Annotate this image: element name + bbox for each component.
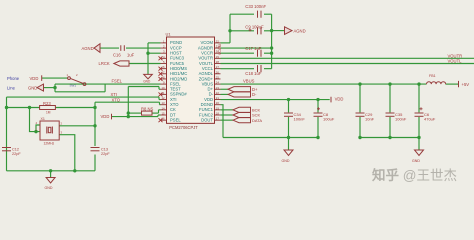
svg-text:SW1: SW1 (70, 83, 77, 87)
svg-text:VDD: VDD (335, 96, 344, 101)
svg-text:25: 25 (216, 75, 220, 79)
svg-text:13: 13 (162, 101, 166, 105)
svg-text:Phone: Phone (7, 76, 20, 81)
svg-text:C13: C13 (101, 147, 108, 151)
svg-text:VCOM: VCOM (218, 44, 222, 55)
svg-text:22pF: 22pF (12, 152, 21, 156)
svg-text:32: 32 (216, 39, 220, 43)
svg-text:知乎 @王世杰: 知乎 @王世杰 (372, 167, 457, 183)
svg-text:23: 23 (216, 86, 220, 90)
svg-text:+5V: +5V (462, 82, 470, 87)
svg-text:C18 1uF: C18 1uF (245, 71, 262, 76)
svg-text:22pF: 22pF (101, 152, 110, 156)
svg-text:VOUTL: VOUTL (448, 59, 463, 64)
svg-text:PSEL: PSEL (170, 117, 181, 122)
svg-text:DATA: DATA (252, 118, 262, 123)
svg-text:GND: GND (412, 159, 420, 163)
svg-text:18: 18 (216, 112, 220, 116)
svg-text:12MHz: 12MHz (44, 141, 55, 145)
svg-text:22: 22 (216, 91, 220, 95)
svg-text:R8 NS: R8 NS (141, 106, 154, 111)
svg-text:FSEL: FSEL (112, 79, 123, 84)
svg-text:LRCK: LRCK (99, 61, 110, 66)
svg-text:470uF: 470uF (424, 117, 436, 122)
svg-text:VDD: VDD (30, 76, 39, 81)
svg-text:100uF: 100uF (323, 117, 335, 122)
svg-text:15: 15 (162, 112, 166, 116)
svg-text:12: 12 (162, 96, 166, 100)
svg-text:DOUT: DOUT (201, 117, 213, 122)
svg-text:26: 26 (216, 70, 220, 74)
svg-text:GND: GND (143, 80, 151, 84)
svg-text:U1: U1 (166, 32, 172, 37)
svg-text:10nF: 10nF (365, 117, 375, 122)
svg-text:AGND: AGND (82, 46, 94, 51)
svg-text:1M: 1M (46, 111, 51, 115)
svg-text:Line: Line (7, 85, 16, 90)
svg-text:D-: D- (252, 92, 257, 97)
svg-text:20: 20 (216, 101, 220, 105)
svg-text:XTO: XTO (112, 97, 121, 102)
svg-text:VDD: VDD (101, 114, 110, 119)
svg-text:VBUS: VBUS (243, 79, 255, 84)
svg-text:27: 27 (216, 65, 220, 69)
svg-text:1uF: 1uF (127, 53, 135, 58)
svg-text:C9 100uF: C9 100uF (245, 25, 264, 30)
svg-text:AGND: AGND (294, 29, 306, 34)
svg-text:100nF: 100nF (294, 117, 306, 122)
svg-text:100nF: 100nF (395, 117, 407, 122)
svg-text:C12: C12 (12, 147, 19, 151)
svg-text:21: 21 (216, 96, 220, 100)
svg-text:PCM2706CPJT: PCM2706CPJT (169, 125, 198, 130)
svg-text:19: 19 (216, 106, 220, 110)
svg-text:GND: GND (28, 85, 37, 90)
svg-text:X1: X1 (41, 117, 45, 121)
svg-text:C33 100nF: C33 100nF (245, 4, 266, 9)
svg-text:28: 28 (216, 60, 220, 64)
svg-text:R23: R23 (43, 101, 51, 106)
svg-text:GND: GND (282, 159, 290, 163)
svg-text:14: 14 (162, 106, 166, 110)
svg-text:C17 1uF: C17 1uF (245, 46, 262, 51)
svg-text:10: 10 (162, 86, 166, 90)
svg-text:C16: C16 (113, 53, 121, 58)
svg-text:GND: GND (45, 186, 53, 190)
svg-text:17: 17 (216, 117, 220, 121)
svg-text:FB1: FB1 (429, 74, 436, 78)
svg-text:24: 24 (216, 81, 220, 85)
